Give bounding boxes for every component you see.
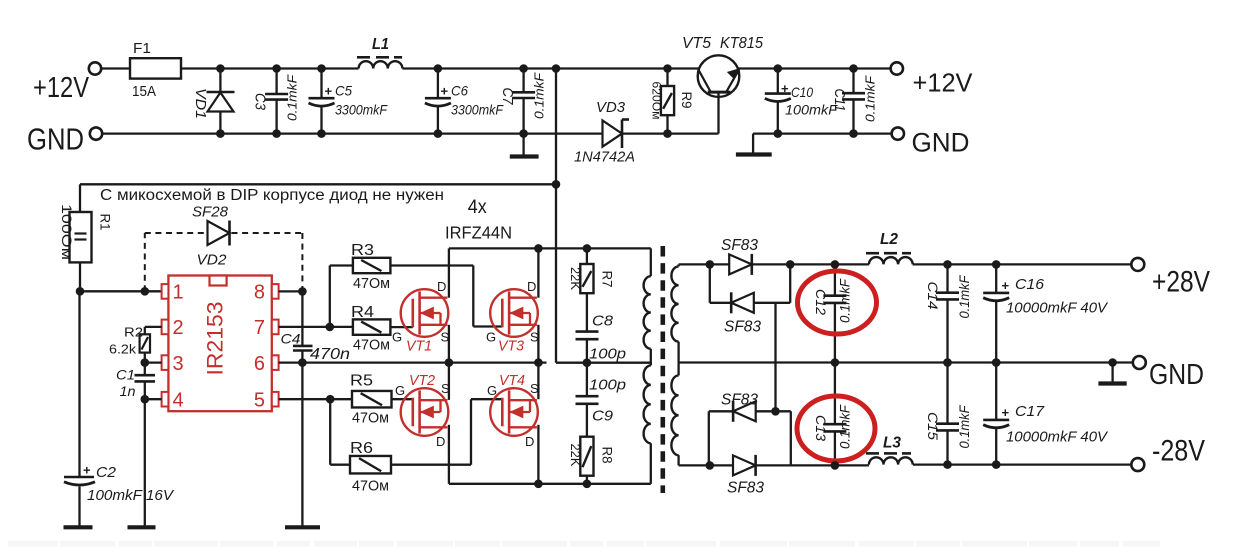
node R1 bottom (76, 287, 85, 296)
node C12 bottom (831, 358, 840, 367)
svg-text:0.1mkF: 0.1mkF (285, 74, 300, 121)
svg-text:VD1: VD1 (192, 88, 208, 119)
node C3 bottom (272, 129, 281, 138)
transistor VT5 (698, 55, 740, 97)
svg-text:+: + (441, 84, 449, 99)
resistor R8 (580, 437, 593, 476)
svg-text:G: G (392, 330, 402, 345)
wire -28 rail (913, 463, 1131, 465)
svg-text:D: D (436, 434, 445, 449)
svg-text:22K: 22K (568, 267, 582, 291)
svg-text:1: 1 (173, 282, 184, 304)
node bus VT4 (534, 480, 543, 489)
node feed top (552, 64, 561, 73)
wire VT4 source lead (537, 363, 539, 400)
svg-text:SF83: SF83 (721, 237, 758, 254)
wire pin6 sources line (279, 361, 547, 363)
wire R5 to VT2 gate (392, 398, 413, 400)
svg-text:470n: 470n (310, 346, 350, 363)
diode VD2 SF28 (208, 221, 230, 245)
wire R6 branch (329, 399, 331, 465)
svg-text:1N4742A: 1N4742A (574, 150, 635, 166)
svg-text:8: 8 (254, 282, 265, 304)
svg-text:100mkF 16V: 100mkF 16V (87, 488, 174, 504)
svg-text:SF83: SF83 (727, 480, 764, 497)
svg-text:47Ом: 47Ом (353, 337, 390, 354)
svg-text:100mkF: 100mkF (785, 103, 838, 118)
diode SF83 top2 (731, 293, 754, 313)
resistor R9 (666, 69, 668, 87)
svg-text:C3: C3 (252, 93, 268, 110)
resistor R4 (353, 319, 391, 334)
svg-text:C15: C15 (925, 412, 941, 440)
svg-text:100Ом: 100Ом (59, 204, 74, 260)
transistor VT2 (401, 388, 449, 436)
terminal +12V input (89, 62, 101, 74)
svg-text:0.1mkF: 0.1mkF (838, 278, 853, 323)
transistor VT3 (490, 289, 538, 337)
wire pin4 (145, 398, 162, 400)
capacitor C1 (144, 363, 146, 376)
svg-text:620Ом: 620Ом (650, 82, 662, 120)
resistor R7 (586, 248, 588, 264)
svg-text:+28V: +28V (1152, 265, 1210, 298)
node gnd stub (1108, 358, 1117, 367)
resistor R5 (352, 391, 392, 408)
svg-text:R3: R3 (351, 242, 374, 259)
svg-text:R5: R5 (350, 373, 373, 390)
svg-text:R8: R8 (600, 447, 616, 464)
wire VT2 source lead (448, 363, 450, 400)
node C13 bottom (831, 461, 840, 470)
transformer T1 secondary (677, 264, 679, 266)
terminal +12V output (891, 62, 903, 74)
node C6 bottom (434, 129, 443, 138)
wire R3 to VT3 gate (390, 264, 473, 266)
svg-text:3300mkF: 3300mkF (335, 103, 388, 118)
node VD1 bottom (216, 129, 225, 138)
zener VD3 (603, 121, 623, 147)
svg-text:C14: C14 (925, 282, 941, 310)
capacitor C10 (777, 69, 779, 94)
wire VT3 drain lead (537, 248, 539, 297)
svg-text:VT1: VT1 (406, 338, 432, 355)
transistor VT1 (401, 289, 449, 337)
terminal GND output (1133, 356, 1146, 369)
svg-text:7: 7 (254, 317, 265, 339)
capacitor C6 (437, 69, 439, 99)
red circle around C13 (797, 396, 875, 461)
wire +12 feed vertical (555, 69, 557, 363)
capacitor C2 (78, 291, 80, 477)
wire drain bus bottom (449, 483, 651, 485)
svg-text:100p: 100p (589, 346, 626, 363)
node pin4 (141, 395, 150, 404)
transformer core (660, 246, 665, 493)
svg-text:2: 2 (173, 317, 184, 339)
node sources VT3 (534, 358, 543, 367)
svg-text:0.1mkF: 0.1mkF (532, 72, 547, 119)
wire output gnd segment (753, 132, 897, 134)
wire pin3 (145, 361, 162, 363)
node R3 branch (326, 323, 335, 332)
node C11 bottom (849, 129, 858, 138)
wire diode2 branch (709, 264, 711, 302)
svg-text:15A: 15A (132, 83, 156, 100)
node C5 top (317, 64, 326, 73)
svg-text:+: + (1002, 405, 1010, 420)
ground below VT5 (736, 152, 772, 156)
wire pin2 to R2 (145, 326, 162, 328)
node C15 top (943, 358, 952, 367)
node sec top right (786, 260, 795, 269)
svg-text:+: + (781, 81, 789, 96)
svg-text:SF83: SF83 (721, 392, 758, 409)
inductor L1 (359, 61, 403, 68)
svg-text:10000mkF 40V: 10000mkF 40V (1006, 300, 1109, 317)
node VD1 top (216, 64, 225, 73)
wire long vertical rect (774, 303, 776, 412)
svg-text:G: G (486, 330, 496, 345)
svg-text:C17: C17 (1015, 403, 1045, 420)
node C17 bottom (992, 460, 1001, 469)
svg-text:L2: L2 (880, 231, 898, 248)
svg-text:C8: C8 (592, 313, 614, 330)
svg-text:VT2: VT2 (409, 372, 436, 389)
svg-text:47Ом: 47Ом (352, 410, 389, 427)
node rect mid (771, 407, 780, 416)
wire R4 to VT1 gate (390, 326, 412, 328)
capacitor C5 (320, 69, 322, 99)
node pin3 (141, 358, 150, 367)
svg-text:+: + (83, 463, 91, 478)
capacitor C17 (995, 363, 997, 420)
svg-text:3300mkF: 3300mkF (451, 103, 504, 118)
wire drain bus top (449, 247, 651, 249)
wire top rail (101, 67, 358, 69)
svg-text:C4: C4 (281, 331, 301, 347)
svg-text:G: G (487, 383, 497, 398)
diode SF83 top1 (729, 254, 752, 274)
svg-text:5: 5 (254, 390, 265, 412)
terminal +28V (1131, 258, 1144, 271)
svg-text:VD3: VD3 (596, 99, 626, 116)
svg-text:C11: C11 (831, 89, 847, 112)
svg-text:C1: C1 (116, 368, 135, 383)
svg-text:C16: C16 (1015, 276, 1045, 293)
wire pin6 gnd drop (301, 363, 303, 526)
capacitor C9 (586, 363, 588, 397)
node C5 bottom (317, 129, 326, 138)
svg-text:10000mkF 40V: 10000mkF 40V (1006, 429, 1109, 446)
node R6 branch (326, 395, 335, 404)
wire pin1 line (80, 290, 162, 292)
capacitor C16 (995, 264, 997, 293)
node C10 bottom (774, 129, 783, 138)
terminal GND output right (892, 127, 904, 139)
svg-text:0.1mkF: 0.1mkF (838, 404, 853, 449)
diode SF83 bot1 (733, 401, 756, 421)
node bus R8 (583, 480, 592, 489)
wire +28 rail (835, 263, 869, 265)
wire VT1 source lead (448, 325, 450, 363)
svg-text:22K: 22K (568, 444, 582, 468)
svg-text:C6: C6 (451, 83, 468, 99)
diode VD1 (219, 69, 221, 134)
resistor R6 (350, 456, 391, 474)
svg-text:4: 4 (173, 390, 184, 412)
svg-text:0.1mkF: 0.1mkF (863, 75, 878, 122)
svg-text:47Ом: 47Ом (352, 478, 389, 495)
node sources VT1 (445, 358, 454, 367)
svg-text:6: 6 (254, 353, 265, 375)
capacitor C4 (301, 291, 303, 346)
wire pin7 (279, 326, 353, 328)
node C16 top (992, 260, 1001, 269)
svg-text:100p: 100p (589, 377, 626, 394)
wire diode3 branch (709, 410, 791, 412)
node feed C8C9 (583, 358, 592, 367)
wire chip supply line (80, 183, 556, 185)
ground at output gnd (1111, 363, 1113, 382)
node C11 top (849, 64, 858, 73)
capacitor C12 (834, 264, 836, 295)
svg-text:IR2153: IR2153 (203, 302, 228, 376)
svg-text:R1: R1 (98, 214, 113, 231)
svg-text:F1: F1 (133, 40, 151, 57)
svg-text:IRFZ44N: IRFZ44N (445, 222, 512, 242)
svg-text:6.2k: 6.2k (109, 342, 137, 357)
capacitor C15 (946, 363, 948, 424)
svg-text:+12V: +12V (913, 68, 974, 98)
svg-text:C2: C2 (96, 464, 117, 481)
node C16 bottom (992, 358, 1001, 367)
wire R3 branch up (329, 266, 331, 327)
svg-text:47Ом: 47Ом (353, 275, 390, 292)
wire VT3 source lead (537, 325, 539, 363)
node R9 top (663, 64, 672, 73)
inductor L2 (869, 257, 913, 264)
ground below C2 (64, 525, 93, 529)
svg-text:GND: GND (1149, 359, 1204, 391)
wire secondary top line (679, 263, 835, 265)
svg-text:SF28: SF28 (192, 204, 229, 221)
svg-text:C10: C10 (791, 84, 813, 100)
wire gnd rail (102, 132, 602, 134)
svg-text:0.1mkF: 0.1mkF (957, 405, 972, 449)
svg-text:+: + (1002, 278, 1010, 293)
wire primary feed line (556, 362, 651, 364)
wire R6 to VT4 gate (391, 464, 471, 466)
capacitor C7 (522, 69, 524, 93)
capacitor C8 (586, 293, 588, 331)
node feed supply tap (552, 180, 561, 189)
svg-text:R7: R7 (600, 271, 616, 288)
svg-text:C7: C7 (499, 88, 515, 106)
inductor L3 (869, 457, 913, 464)
svg-text:3: 3 (173, 353, 184, 375)
resistor R1 (79, 184, 81, 212)
ground below pin4 (128, 525, 156, 529)
wire VT4 drain lead (537, 425, 539, 484)
bottom scan band (8, 541, 1160, 547)
svg-text:SF83: SF83 (724, 319, 761, 336)
node bus VT3 (534, 244, 543, 253)
wire VT2 drain lead (448, 425, 450, 484)
svg-text:VT3: VT3 (498, 338, 525, 355)
node C7 gnd rail (519, 129, 528, 138)
node pin8 (298, 287, 307, 296)
resistor R3 (353, 258, 391, 273)
svg-text:GND: GND (27, 122, 84, 157)
node bus R7 (583, 244, 592, 253)
terminal GND input (90, 127, 102, 139)
diode SF83 bot2 (733, 455, 756, 475)
node C14 top (943, 260, 952, 269)
svg-text:KT815: KT815 (720, 35, 763, 52)
svg-text:R6: R6 (350, 440, 373, 457)
svg-text:VT5: VT5 (682, 35, 711, 52)
node C10 top (774, 64, 783, 73)
node sec top left (706, 260, 715, 269)
node C3 top (272, 64, 281, 73)
ground below C7 (510, 154, 539, 158)
node R9 bottom (663, 129, 672, 138)
wire pin8 (279, 290, 303, 292)
red circle around C12 (798, 271, 877, 334)
capacitor C14 (946, 264, 948, 292)
resistor R2 (140, 334, 150, 352)
svg-text:С микосхемой в DIP корпусе дио: С микосхемой в DIP корпусе диод не нужен (100, 187, 444, 204)
node pin1 dashed (141, 287, 150, 296)
op-amp U1 IR2153 body (168, 276, 271, 412)
svg-text:-28V: -28V (1152, 435, 1205, 468)
node sec bottom left (706, 461, 715, 470)
capacitor C11 (852, 69, 854, 94)
capacitor C13 (834, 363, 836, 425)
svg-text:1n: 1n (120, 384, 136, 399)
node C6 top (434, 64, 443, 73)
svg-text:D: D (527, 279, 536, 294)
wire secondary bottom line (679, 464, 869, 466)
wire VT1 drain lead (448, 248, 450, 297)
svg-text:C9: C9 (592, 408, 614, 425)
wire pin4 down (144, 399, 146, 525)
svg-text:L3: L3 (883, 435, 901, 452)
node pin6 C4 (298, 358, 307, 367)
svg-text:R2: R2 (124, 324, 143, 339)
terminal -28V (1131, 458, 1144, 471)
svg-text:C12: C12 (813, 289, 829, 315)
svg-text:R9: R9 (679, 92, 694, 109)
svg-text:R4: R4 (351, 304, 374, 321)
svg-text:L1: L1 (372, 36, 389, 53)
svg-text:G: G (395, 383, 405, 398)
svg-text:+: + (325, 84, 333, 99)
node C17 top (992, 358, 1001, 367)
svg-text:VD2: VD2 (197, 252, 228, 269)
wire pin5 (279, 398, 352, 400)
wire R2 to node (144, 353, 146, 363)
transistor VT4 (490, 388, 538, 436)
wire gnd center line (679, 361, 1133, 363)
node C7 top (519, 64, 528, 73)
svg-text:C13: C13 (813, 415, 829, 441)
svg-text:0.1mkF: 0.1mkF (957, 275, 972, 319)
node C15 bottom (943, 460, 952, 469)
node C12 top (831, 260, 840, 269)
svg-text:VT4: VT4 (499, 372, 525, 389)
svg-text:+12V: +12V (33, 72, 90, 104)
svg-text:D: D (437, 279, 446, 294)
capacitor C3 (275, 69, 277, 95)
node C14 bottom (943, 358, 952, 367)
fuse F1 (130, 58, 181, 78)
transformer T1 primary (650, 248, 652, 276)
ground below pin6 drop (285, 525, 320, 529)
dashed link VD2 (144, 233, 146, 291)
svg-text:D: D (525, 434, 534, 449)
svg-text:4x: 4x (468, 196, 487, 218)
svg-text:C5: C5 (335, 83, 352, 99)
svg-text:GND: GND (912, 128, 970, 158)
